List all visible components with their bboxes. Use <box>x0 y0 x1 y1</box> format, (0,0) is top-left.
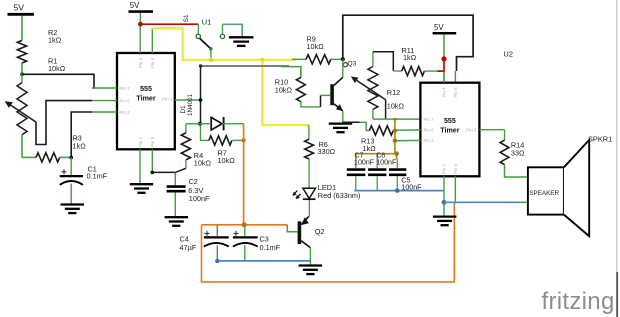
svg-text:0.1mF: 0.1mF <box>87 172 108 181</box>
svg-text:10kΩ: 10kΩ <box>307 42 325 51</box>
svg-text:Pin 5: Pin 5 <box>453 163 458 174</box>
wire U1 pin3 gray to R10 <box>201 65 289 67</box>
wire red 5V branch <box>437 59 444 71</box>
node pin3 corner <box>199 64 202 67</box>
resistor R6 <box>308 125 310 139</box>
wire orange loop <box>202 224 288 226</box>
svg-text:Pin 6: Pin 6 <box>424 128 435 133</box>
svg-text:47µF: 47µF <box>180 243 197 252</box>
wire R12 bottom to U2 pin7 <box>373 118 421 120</box>
wire R2/R1 node to U1 pin7 <box>22 74 94 88</box>
speaker SPKR1 <box>528 167 564 214</box>
node orange C3 junction <box>242 222 247 227</box>
svg-text:U1: U1 <box>202 17 211 26</box>
svg-text:1kΩ: 1kΩ <box>48 35 62 44</box>
resistor R10 <box>297 77 306 101</box>
capacitor C3 <box>244 225 246 236</box>
capacitor C6 <box>376 154 378 169</box>
wire blue ground net (caps) <box>354 190 444 192</box>
wire U1 pin2 to R3/C1 node <box>71 112 92 157</box>
wire R4 to U1 pin5 / C2 <box>152 168 186 172</box>
wire olive to U2 pin2 <box>395 139 421 141</box>
node U2 pin1 blue <box>442 200 447 205</box>
wire <box>21 16 23 41</box>
wire 5V to U2 pin8 <box>443 71 445 83</box>
wire 5V to switch S1 <box>140 23 198 25</box>
potentiometer R1 <box>17 83 27 135</box>
node olive caps <box>394 151 399 156</box>
svg-text:Q3: Q3 <box>348 61 357 68</box>
wire blue ground link (C4/C3) <box>217 260 310 262</box>
connector circle Q3 <box>343 63 347 67</box>
svg-text:Pin 1: Pin 1 <box>441 163 446 174</box>
wire orange to Q2 base <box>287 225 297 232</box>
capacitor C7 <box>355 154 357 169</box>
potentiometer R12 <box>368 67 378 110</box>
svg-text:fritzing: fritzing <box>542 288 615 315</box>
svg-text:SPKR1: SPKR1 <box>588 134 612 143</box>
svg-text:1kΩ: 1kΩ <box>73 142 87 151</box>
svg-text:C2: C2 <box>189 177 198 186</box>
node C5 blue <box>395 188 400 193</box>
svg-text:SPEAKER: SPEAKER <box>529 190 559 197</box>
svg-text:Red (633nm): Red (633nm) <box>318 191 361 200</box>
resistor R9 <box>292 58 306 60</box>
svg-text:R12: R12 <box>387 88 400 97</box>
node 5V/U1 pin4 <box>138 22 143 27</box>
svg-text:Pin 4: Pin 4 <box>138 57 143 68</box>
node R3/pin2/C1 <box>69 156 73 160</box>
ground (U2 pin1) <box>433 215 457 217</box>
svg-text:Pin 3: Pin 3 <box>466 128 477 133</box>
svg-text:Timer: Timer <box>136 94 155 102</box>
svg-text:Pin 5: Pin 5 <box>150 136 155 147</box>
diode D1 1N4001 <box>200 123 210 125</box>
wire collector net to U2 pin4 <box>343 15 473 71</box>
svg-text:D1: D1 <box>180 105 187 114</box>
node U1 pin5 <box>150 171 154 175</box>
ground (Q2) <box>299 264 323 266</box>
svg-text:10kΩ: 10kΩ <box>275 85 293 94</box>
capacitor C1 <box>70 158 72 176</box>
resistor R11 <box>393 70 401 72</box>
svg-text:10kΩ: 10kΩ <box>48 64 66 73</box>
svg-text:Pin 2: Pin 2 <box>424 138 435 143</box>
wire <box>21 63 23 74</box>
svg-text:5V: 5V <box>130 1 140 10</box>
capacitor C2 <box>174 172 176 185</box>
node olive pin2 <box>393 139 397 143</box>
node 5V / U2 <box>441 56 446 61</box>
svg-text:100nF: 100nF <box>354 159 375 167</box>
svg-text:1N4001: 1N4001 <box>187 93 194 116</box>
svg-text:555: 555 <box>444 117 456 125</box>
svg-text:5V: 5V <box>434 23 444 32</box>
svg-text:Pin 2: Pin 2 <box>120 110 131 115</box>
ground (C1) <box>61 203 85 205</box>
svg-text:Pin 8: Pin 8 <box>453 87 458 98</box>
svg-text:10kΩ: 10kΩ <box>387 102 405 111</box>
node R7 on orange net <box>242 138 246 142</box>
capacitor C4 <box>216 225 218 236</box>
wire U1 pin8 yellow net <box>152 28 295 60</box>
wire R1 wiper to U1 pin6 <box>36 101 92 145</box>
node diode/R4 junction <box>198 122 202 126</box>
screen border line <box>616 0 618 317</box>
svg-text:Pin 7: Pin 7 <box>424 117 435 122</box>
node junction R2/R1/pin7 <box>20 72 24 76</box>
node S1 on yellow net <box>209 58 213 62</box>
wire S1 to ground <box>223 24 243 36</box>
LED LED1 <box>303 188 316 198</box>
svg-text:Timer: Timer <box>440 126 459 134</box>
resistor R2 <box>17 40 26 63</box>
resistor R7 <box>200 139 209 141</box>
node U1 pin3 junction <box>199 98 203 102</box>
svg-text:0.1mF: 0.1mF <box>260 243 281 252</box>
resistor R4 <box>186 123 200 125</box>
transistor Q2 <box>298 221 302 244</box>
wire pin3 vertical net <box>200 66 202 124</box>
svg-text:100nF: 100nF <box>189 194 210 203</box>
ground (U1 pin1) <box>130 183 153 185</box>
wire yellow net to R6 <box>262 60 309 125</box>
svg-text:Pin 4: Pin 4 <box>441 87 446 98</box>
svg-text:1kΩ: 1kΩ <box>363 144 377 153</box>
svg-text:Pin 6: Pin 6 <box>120 98 131 103</box>
wire orange net vertical (D1 to C3) <box>243 124 245 225</box>
svg-text:S1: S1 <box>183 14 190 22</box>
svg-text:Pin 3: Pin 3 <box>162 97 173 102</box>
U2 pin stubs <box>443 72 445 83</box>
capacitor C5 <box>396 159 398 168</box>
svg-text:Q2: Q2 <box>315 227 325 236</box>
svg-text:33Ω: 33Ω <box>511 149 525 158</box>
wire olive net <box>394 119 396 154</box>
svg-text:5V: 5V <box>14 3 25 13</box>
svg-text:Pin 1: Pin 1 <box>138 136 143 147</box>
svg-text:Pin 7: Pin 7 <box>120 86 131 91</box>
svg-text:100nF: 100nF <box>376 159 397 167</box>
svg-text:U2: U2 <box>504 50 513 59</box>
wire blue to speaker <box>444 201 520 203</box>
wire R10 to Q3 base <box>320 95 322 107</box>
resistor R3 <box>22 156 36 158</box>
U1 pin stubs <box>92 87 117 89</box>
svg-text:10kΩ: 10kΩ <box>218 156 236 165</box>
IC U1 555 timer <box>117 53 175 149</box>
node C4 blue <box>215 259 219 263</box>
ground (Q3) <box>329 122 352 124</box>
svg-text:Pin 8: Pin 8 <box>150 57 155 68</box>
resistor R13 <box>343 121 360 123</box>
node yellow net branch <box>260 58 264 62</box>
ground (C2) <box>165 216 189 218</box>
svg-text:10kΩ: 10kΩ <box>194 159 212 168</box>
node Q3 collector <box>341 57 345 61</box>
IC U2 555 timer <box>420 83 479 177</box>
svg-text:330Ω: 330Ω <box>318 147 336 156</box>
ground (S1) <box>229 36 254 38</box>
wire R13 to U2 pin6 <box>393 129 420 131</box>
resistor R14 <box>504 130 506 141</box>
svg-text:1kΩ: 1kΩ <box>403 53 417 62</box>
node olive R13 <box>393 129 397 133</box>
transistor Q3 <box>342 59 344 77</box>
svg-text:555: 555 <box>140 85 152 93</box>
wire R10 top <box>300 67 302 78</box>
